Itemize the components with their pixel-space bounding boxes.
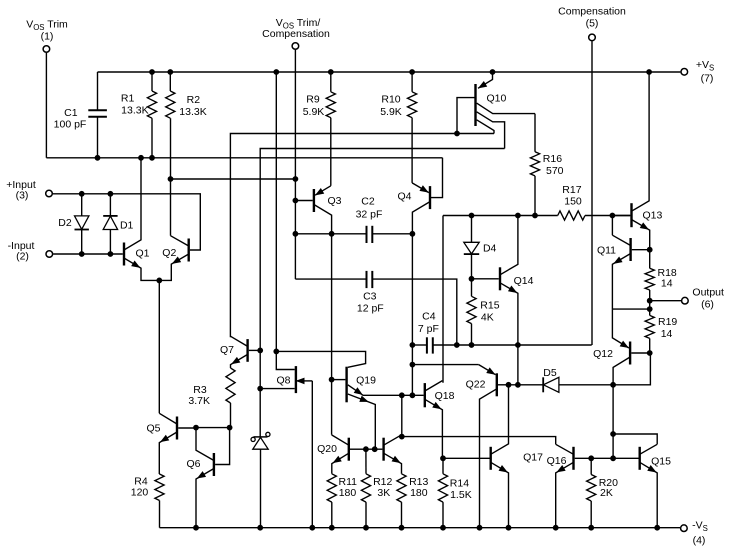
- node rail Q16 emitter: [553, 525, 558, 530]
- transistor Q7: [220, 336, 260, 368]
- diode D5: [543, 367, 559, 392]
- resistor R19: [645, 301, 677, 353]
- terminal pin 3 +Input: [6, 179, 52, 202]
- svg-text:R16: R16: [543, 153, 562, 165]
- svg-text:Q22: Q22: [466, 378, 486, 390]
- svg-text:4K: 4K: [481, 312, 494, 324]
- transistor Q16: [547, 444, 592, 527]
- svg-text:3.7K: 3.7K: [188, 395, 210, 407]
- node rail Q17 emitter: [506, 525, 511, 530]
- resistor R10: [380, 72, 417, 118]
- capacitor C3: [295, 271, 456, 345]
- svg-text:Output: Output: [692, 287, 724, 299]
- svg-text:Compensation: Compensation: [262, 28, 330, 40]
- svg-text:Q11: Q11: [597, 245, 616, 257]
- wire line C corner to Q4 base: [431, 158, 443, 198]
- node D2 bottom: [79, 252, 84, 257]
- capacitor C1: [54, 72, 107, 158]
- transistor Q8: [260, 366, 312, 528]
- resistor R3: [188, 368, 235, 428]
- wire R2 bottom to Q2 collector: [170, 118, 172, 236]
- node Q6 collector junction: [194, 425, 199, 430]
- node R1 top: [150, 70, 155, 75]
- terminal pin 5 Compensation: [558, 6, 626, 41]
- wire Q20/Q21 base line: [366, 448, 383, 450]
- transistor Q5: [146, 413, 196, 474]
- node C1 bottom: [95, 155, 100, 160]
- node D4 top: [469, 213, 474, 218]
- terminal pin 6 Output: [682, 287, 724, 311]
- wire D5 line left: [509, 384, 544, 386]
- wire Q15 collector line: [613, 434, 657, 444]
- node Q13 collector top: [647, 70, 652, 75]
- svg-text:R1: R1: [121, 93, 135, 105]
- resistor R20: [587, 458, 619, 527]
- svg-text:Q7: Q7: [220, 344, 234, 356]
- node Q12 collector on D5 line: [611, 382, 616, 387]
- svg-text:2K: 2K: [600, 487, 613, 499]
- wire Q2-collector line to pin8: [171, 178, 296, 180]
- transistor Q11: [597, 235, 650, 309]
- svg-text:(7): (7): [701, 73, 714, 85]
- node rail Q15 emitter: [655, 525, 660, 530]
- svg-text:(2): (2): [16, 251, 29, 263]
- svg-text:(1): (1): [41, 31, 54, 43]
- node Q15 base branch: [611, 456, 616, 461]
- svg-text:Q6: Q6: [186, 458, 200, 470]
- svg-text:7 pF: 7 pF: [418, 323, 439, 335]
- node R3 bottom junction: [227, 425, 232, 430]
- svg-text:5.9K: 5.9K: [380, 106, 402, 118]
- svg-text:12 pF: 12 pF: [357, 303, 384, 315]
- node D4 bottom R15 top: [469, 276, 474, 281]
- node Q10 emitter top: [490, 70, 495, 75]
- svg-text:C4: C4: [422, 310, 436, 322]
- wire Q18 base line: [402, 394, 424, 396]
- svg-text:C1: C1: [64, 107, 78, 119]
- node R16 bottom: [533, 213, 538, 218]
- wire Q3 collector down to Q19/Q20: [331, 234, 333, 435]
- svg-text:D2: D2: [58, 217, 72, 229]
- node pin8 at y179: [293, 177, 298, 182]
- wire line E right: [433, 344, 592, 346]
- svg-text:R12: R12: [373, 476, 392, 488]
- wire Q16/Q15 base line: [591, 457, 613, 459]
- svg-text:Q20: Q20: [317, 443, 337, 455]
- node Q13 base branch: [610, 213, 615, 218]
- wire line E left: [412, 344, 427, 346]
- svg-text:(6): (6): [701, 298, 714, 310]
- node Q4 collector on base line: [410, 393, 415, 398]
- capacitor C2: [295, 195, 412, 243]
- resistor R11: [327, 474, 357, 528]
- svg-text:Compensation: Compensation: [558, 6, 626, 18]
- wire line D corner down to Q18 collector: [442, 216, 444, 383]
- svg-text:R2: R2: [187, 94, 201, 106]
- terminal pin 1 VOS Trim: [26, 19, 68, 53]
- svg-text:Q17: Q17: [523, 452, 543, 464]
- node Q3 base on pin8: [293, 198, 298, 203]
- svg-text:14: 14: [661, 278, 673, 290]
- diode D1: [103, 194, 133, 254]
- wire line A Q10 base to Q7 collector: [230, 134, 494, 338]
- svg-text:Q3: Q3: [327, 195, 341, 207]
- wire line C (VOS trim net): [46, 157, 442, 159]
- svg-text:32 pF: 32 pF: [356, 208, 383, 220]
- terminal pin 7 +VS: [681, 59, 714, 85]
- node Q14 collector top: [516, 213, 521, 218]
- node C2 left pin8: [293, 231, 298, 236]
- node line E Q14 emitter: [516, 343, 521, 348]
- node rail R20 bottom: [589, 525, 594, 530]
- resistor R18: [645, 250, 677, 301]
- wire R9 to Q3 emitter: [330, 118, 332, 186]
- node Q19 base on Q3 collector line: [329, 377, 334, 382]
- wire line B Q10 collector2 to zener: [260, 149, 504, 438]
- node line E Q4 collector: [410, 343, 415, 348]
- transistor Q12: [593, 309, 650, 458]
- wire bottom -VS rail: [160, 527, 681, 529]
- wire Q11 emitter line: [612, 308, 649, 310]
- node Q3 collector on C2: [329, 231, 334, 236]
- wire +VS column x276: [275, 72, 277, 351]
- node Q21 collector top: [399, 393, 404, 398]
- node D1 bottom: [108, 252, 113, 257]
- capacitor C4: [418, 310, 439, 353]
- svg-text:Q18: Q18: [435, 390, 455, 402]
- terminal pin 4 -VS: [681, 520, 708, 547]
- wire Q11 collector up: [611, 216, 613, 236]
- svg-text:D1: D1: [120, 219, 134, 231]
- transistor Q18: [425, 381, 455, 459]
- svg-text:Q12: Q12: [593, 348, 613, 360]
- node Q11 emitter junction: [647, 307, 652, 312]
- transistor Q14: [472, 216, 534, 385]
- svg-text:Q8: Q8: [276, 374, 290, 386]
- node Q22 emitter branch: [410, 362, 415, 367]
- node Q11 base: [647, 247, 652, 252]
- transistor Q1: [124, 158, 159, 281]
- node R9 top: [328, 70, 333, 75]
- wire D5 line right: [559, 353, 651, 385]
- transistor Q17: [443, 385, 543, 528]
- resistor R17: [558, 184, 585, 220]
- zener diode: [251, 432, 270, 527]
- transistor Q13: [632, 72, 663, 250]
- wire Q4 collector down to Q18 base line: [411, 234, 413, 395]
- svg-text:5.9K: 5.9K: [303, 106, 325, 118]
- svg-text:R9: R9: [306, 94, 320, 106]
- node R1 bottom: [150, 155, 155, 160]
- svg-text:150: 150: [564, 195, 582, 207]
- transistor Q3: [295, 186, 341, 234]
- wire pin8 vertical: [294, 50, 296, 279]
- node Q15 collector branch: [611, 432, 616, 437]
- svg-text:3K: 3K: [377, 487, 390, 499]
- svg-text:(4): (4): [693, 535, 706, 547]
- resistor R2: [166, 72, 207, 118]
- node Q21 collector mirror line: [399, 434, 404, 439]
- node R2/Q2 branch: [168, 177, 173, 182]
- svg-text:120: 120: [131, 487, 149, 499]
- wire Q8 drain elbow: [276, 351, 294, 369]
- wire -Input to Q1 base: [53, 253, 123, 255]
- svg-text:1.5K: 1.5K: [450, 489, 472, 501]
- wire output stub: [650, 300, 681, 302]
- node R12 top: [364, 447, 369, 452]
- svg-text:R15: R15: [480, 299, 499, 311]
- terminal pin 8 VOS Trim/Compensation: [262, 17, 330, 49]
- svg-text:D5: D5: [543, 367, 557, 379]
- svg-text:Q10: Q10: [487, 93, 507, 105]
- node Q7 base on zener line: [258, 348, 263, 353]
- transistor Q21: [384, 435, 402, 474]
- diode D4: [464, 216, 497, 279]
- node zener Q8 source branch: [258, 386, 263, 391]
- node x276 Q8/Q19 branch: [274, 349, 279, 354]
- wire R10 to Q4 emitter: [411, 118, 413, 183]
- node rail Q6 emitter: [194, 525, 199, 530]
- transistor Q10: [457, 72, 535, 149]
- svg-text:R10: R10: [381, 94, 400, 106]
- wire branch to Q19 collector: [276, 351, 365, 367]
- node D1 top: [108, 191, 113, 196]
- node rail Q8 gate line: [310, 525, 315, 530]
- svg-text:(5): (5): [586, 18, 599, 30]
- wire pin1 to line C: [45, 53, 47, 158]
- node Q10 base on line A: [455, 131, 460, 136]
- transistor Q19: [332, 367, 402, 450]
- wire Q22 emitter line: [412, 364, 478, 366]
- svg-text:180: 180: [339, 487, 357, 499]
- svg-text:R19: R19: [658, 316, 677, 328]
- node line E C3 branch: [454, 343, 459, 348]
- transistor Q6: [186, 428, 229, 528]
- node R2 top: [168, 70, 173, 75]
- wire top +VS rail: [98, 71, 681, 73]
- resistor R9: [303, 72, 336, 118]
- diode D2: [58, 194, 89, 254]
- svg-text:Q4: Q4: [397, 191, 411, 203]
- svg-text:C3: C3: [363, 290, 377, 302]
- svg-text:100 pF: 100 pF: [54, 119, 87, 131]
- resistor R13: [397, 474, 429, 528]
- node R20 top: [589, 456, 594, 461]
- svg-text:R11: R11: [339, 476, 358, 488]
- wire pin5 vertical: [591, 41, 593, 345]
- node output junction: [647, 298, 652, 303]
- wire line D left segment: [443, 215, 558, 217]
- svg-text:Q15: Q15: [651, 456, 671, 468]
- resistor R15: [467, 279, 500, 345]
- node rail R11 bottom: [329, 525, 334, 530]
- transistor Q20: [317, 435, 366, 474]
- svg-text:Q14: Q14: [514, 275, 534, 287]
- wire Q15 base: [613, 457, 638, 459]
- node Q1/Q2 emitters: [157, 278, 162, 283]
- node Q14 emitter bottom: [516, 382, 521, 387]
- node line E R15 bottom: [469, 343, 474, 348]
- svg-text:R17: R17: [562, 184, 581, 196]
- node D2 top: [79, 191, 84, 196]
- node C2 right Q4 collector: [410, 231, 415, 236]
- transistor Q15: [640, 444, 671, 527]
- svg-text:Q2: Q2: [162, 247, 176, 259]
- node Q19 emitter2 bottom: [372, 447, 377, 452]
- wire Q21 collector up: [401, 395, 403, 436]
- transistor Q22: [466, 365, 509, 528]
- svg-text:R13: R13: [409, 476, 428, 488]
- svg-text:Q5: Q5: [146, 423, 160, 435]
- svg-text:13.3K: 13.3K: [121, 105, 148, 117]
- wire Q13 base from line D: [612, 215, 630, 217]
- svg-text:C2: C2: [361, 195, 375, 207]
- node Q1 collector on line C: [139, 155, 144, 160]
- node rail R14 bottom: [441, 525, 446, 530]
- svg-text:13.3K: 13.3K: [179, 106, 206, 118]
- node rail zener: [258, 525, 263, 530]
- svg-text:Q1: Q1: [135, 247, 149, 259]
- svg-text:R14: R14: [450, 477, 469, 489]
- svg-text:Q16: Q16: [547, 455, 567, 467]
- node rail R12 bottom: [364, 525, 369, 530]
- resistor R4: [131, 474, 164, 528]
- transistor Q2: [159, 236, 188, 281]
- wire +Input to Q2 base: [53, 194, 201, 250]
- node R19 bottom Q12 base: [647, 351, 652, 356]
- wire line D right segment: [585, 215, 630, 217]
- resistor R1: [121, 72, 157, 158]
- node Q17 collector top: [506, 382, 511, 387]
- wire Q5 base line: [196, 427, 230, 429]
- wire emitters to Q5 collector: [158, 280, 160, 413]
- terminal pin 2 -Input: [8, 240, 53, 263]
- svg-text:D4: D4: [483, 243, 497, 255]
- svg-text:570: 570: [546, 165, 564, 177]
- svg-text:(3): (3): [16, 190, 29, 202]
- node rail R13 bottom: [399, 525, 404, 530]
- node rail Q22 collector: [477, 525, 482, 530]
- svg-text:Q19: Q19: [356, 375, 376, 387]
- svg-text:14: 14: [661, 328, 673, 340]
- resistor R12: [361, 449, 392, 528]
- resistor R14: [438, 458, 471, 527]
- node R10 top: [410, 70, 415, 75]
- transistor Q4: [397, 183, 430, 234]
- svg-text:Q13: Q13: [643, 209, 663, 221]
- resistor R16: [530, 114, 563, 216]
- wire Q16 collector line: [402, 437, 556, 445]
- node R14 top Q17 base: [441, 456, 446, 461]
- node x276 top: [274, 70, 279, 75]
- svg-text:180: 180: [410, 487, 428, 499]
